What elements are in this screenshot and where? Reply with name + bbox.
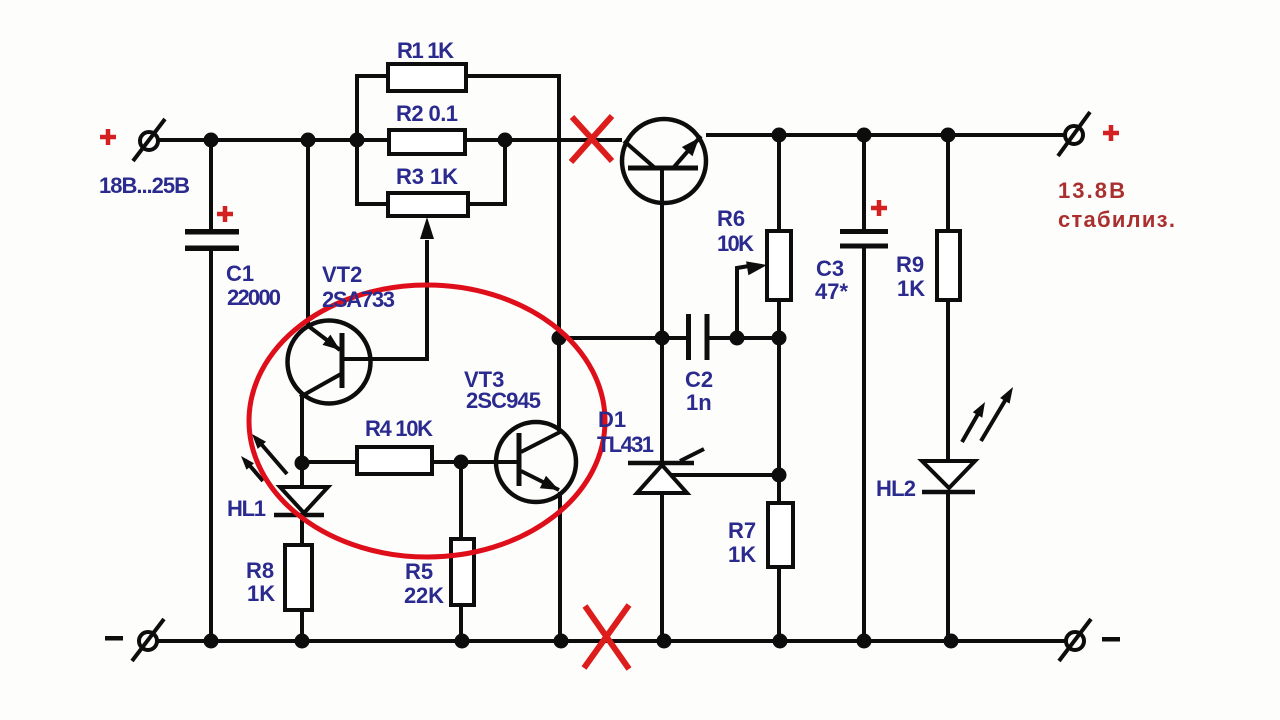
resistor R9 — [937, 231, 960, 300]
svg-text:1K: 1K — [897, 276, 925, 301]
svg-text:HL1: HL1 — [227, 496, 266, 521]
svg-text:VT2: VT2 — [322, 262, 362, 287]
svg-text:R7: R7 — [728, 518, 756, 543]
svg-text:18В...25В: 18В...25В — [99, 173, 190, 198]
svg-text:1K: 1K — [247, 581, 275, 606]
LED HL1 — [241, 434, 328, 515]
transistor VT1 — [622, 119, 706, 203]
svg-text:22000: 22000 — [227, 285, 281, 310]
wire D1 ref to R7 — [662, 473, 779, 477]
wire top main right — [706, 133, 1065, 137]
node top C3 — [857, 128, 872, 143]
node HL1 R4 — [295, 456, 310, 471]
capacitor C3 — [840, 229, 888, 249]
wire VT3 emitter down — [558, 492, 562, 641]
wire middle node row — [559, 336, 779, 340]
node mid R6 bottom — [772, 331, 787, 346]
wire R9 vertical — [946, 135, 950, 641]
resistor R3 — [388, 193, 468, 216]
polarity + C3 — [871, 200, 887, 216]
node top Rbank right — [498, 133, 513, 148]
svg-text:22K: 22K — [404, 583, 444, 608]
svg-text:10K: 10K — [717, 231, 754, 256]
wire R5 vertical — [459, 462, 463, 641]
svg-text:2SC945: 2SC945 — [466, 388, 541, 413]
resistor R2 — [389, 130, 465, 154]
wire VT2 collector down — [300, 394, 304, 464]
node mid VT3c — [552, 331, 567, 346]
red marks — [571, 116, 629, 669]
terminal bottom left - — [132, 619, 164, 661]
wire bottom rail — [157, 639, 1066, 643]
polarity + output — [1103, 125, 1119, 141]
svg-text:R5: R5 — [405, 559, 433, 584]
node bottom R7 — [773, 634, 788, 649]
svg-text:R1 1K: R1 1K — [397, 38, 454, 63]
resistor R8 — [285, 545, 312, 610]
node D1 ref R7 — [772, 468, 787, 483]
node top C1 — [204, 133, 219, 148]
resistor R4 — [357, 447, 432, 474]
node bottom C3 — [857, 634, 872, 649]
cut X top — [571, 116, 612, 162]
wire R4 row — [302, 460, 497, 464]
node bottom VT3e — [554, 634, 569, 649]
wire top main left — [157, 138, 622, 142]
wire VT2 emitter vertical — [306, 140, 310, 326]
resistor R5 — [451, 539, 474, 605]
svg-text:C1: C1 — [226, 261, 254, 286]
wire R6 wiper — [737, 266, 749, 338]
cut X bottom — [584, 605, 629, 669]
wire VT1 base down to D1 — [660, 168, 664, 463]
svg-text:R6: R6 — [717, 206, 745, 231]
polarity + C1 — [217, 206, 233, 222]
terminal bottom right - — [1059, 619, 1091, 661]
resistor R7 — [768, 503, 793, 567]
node bottom R5 — [455, 634, 470, 649]
LED HL2 — [922, 387, 1013, 492]
node bottom D1 — [657, 634, 672, 649]
diode D1 TL431 — [628, 449, 704, 493]
wire R3 wiper from VT2 base — [342, 240, 427, 359]
polarity - right — [1102, 637, 1120, 642]
node bottom R8 — [295, 634, 310, 649]
terminal output + — [1058, 112, 1090, 156]
polarity - left — [105, 636, 123, 641]
svg-text:стабилиз.: стабилиз. — [1058, 207, 1175, 232]
svg-text:1n: 1n — [686, 390, 712, 415]
wire C1 vertical — [209, 140, 213, 641]
resistor R1 — [388, 64, 466, 91]
wire R1 right to VT3 collector — [466, 76, 559, 431]
node mid VT1 base — [655, 331, 670, 346]
svg-text:C2: C2 — [685, 367, 713, 392]
arrow R6 wiper head — [746, 261, 767, 275]
svg-text:2SA733: 2SA733 — [322, 287, 395, 312]
node top Rbank left — [350, 133, 365, 148]
terminal input + — [133, 119, 165, 161]
resistor R6 — [767, 231, 791, 300]
node bottom HL2 — [944, 634, 959, 649]
capacitor C1 — [185, 229, 239, 251]
svg-text:1K: 1K — [728, 542, 756, 567]
wire HL1 link — [300, 464, 304, 641]
svg-text:R3 1K: R3 1K — [396, 164, 458, 189]
wire R3 right stub — [468, 140, 505, 204]
polarity + input — [100, 129, 116, 145]
svg-text:R9: R9 — [896, 252, 924, 277]
transistor VT2 — [288, 321, 371, 404]
svg-text:R4 10K: R4 10K — [365, 416, 433, 441]
node top R6 — [772, 128, 787, 143]
node bottom C1 — [204, 634, 219, 649]
svg-text:R2 0.1: R2 0.1 — [396, 101, 458, 126]
svg-text:13.8В: 13.8В — [1058, 178, 1125, 203]
svg-text:D1: D1 — [598, 407, 626, 432]
wire R-bank left bracket — [357, 76, 388, 204]
svg-text:47*: 47* — [815, 279, 848, 304]
transistor VT3 — [496, 422, 576, 502]
highlight ellipse — [249, 285, 605, 557]
svg-text:TL431: TL431 — [597, 432, 654, 457]
svg-text:HL2: HL2 — [876, 476, 916, 501]
node top VT2e — [301, 133, 316, 148]
arrow R3 wiper head — [420, 217, 434, 239]
svg-text:C3: C3 — [816, 256, 844, 281]
node top R9 — [941, 128, 956, 143]
node R4 R5 VT3b — [454, 455, 469, 470]
node mid R6 wiper — [730, 331, 745, 346]
capacitor C2 — [686, 314, 710, 360]
wire R6 vertical — [777, 135, 781, 641]
wire D1 anode down — [660, 493, 664, 641]
wire C3 vertical — [862, 135, 866, 641]
svg-text:R8: R8 — [246, 558, 274, 583]
